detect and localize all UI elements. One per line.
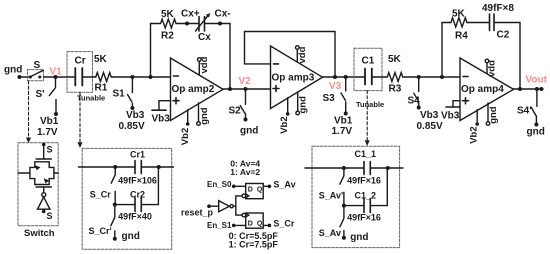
node feedback join	[228, 87, 232, 91]
wire U4 output to Vout	[514, 88, 544, 90]
switch S_Cr	[90, 167, 115, 205]
inverter U5	[219, 201, 234, 212]
resistor R2 5K	[159, 9, 179, 42]
node C1_2 left junction	[342, 204, 346, 208]
wire S to V1	[44, 76, 69, 78]
svg-text:C1: C1	[362, 56, 375, 67]
svg-text:gnd: gnd	[297, 96, 308, 114]
node gnd of Cr detail	[113, 231, 140, 242]
svg-text:Q: Q	[257, 186, 263, 193]
svg-text:S_Cr: S_Cr	[90, 190, 112, 200]
wire feedback rail to R2	[151, 23, 160, 25]
svg-text:5K: 5K	[452, 9, 466, 20]
svg-text:Op amp2: Op amp2	[172, 84, 215, 95]
svg-text:Vb3: Vb3	[420, 110, 439, 121]
node reset_p	[181, 204, 214, 217]
wire R2 to Cx	[179, 23, 199, 25]
bias Vb3 at U2 plus input	[152, 101, 171, 125]
switch S2	[229, 89, 248, 122]
svg-text:5K: 5K	[388, 54, 402, 65]
transistor NMOS gate of transmission gate	[36, 187, 51, 197]
svg-text:V3: V3	[329, 81, 342, 92]
C1 detail box	[312, 146, 400, 247]
wire U2 output to op-amp U3	[223, 88, 271, 90]
node S top control	[42, 143, 53, 155]
node En_S0	[207, 180, 236, 189]
wire R1 to op-amp U2 minus input	[113, 76, 171, 78]
svg-text:49fF×16: 49fF×16	[347, 176, 381, 186]
svg-text:Cx+: Cx+	[181, 9, 200, 20]
svg-text:R3: R3	[389, 84, 402, 95]
wire inverter to DFF2 clock	[236, 206, 242, 215]
wire reset_p to inverter	[209, 205, 219, 207]
svg-text:49fF×8: 49fF×8	[482, 3, 514, 14]
wire feedback up from main line	[150, 24, 152, 78]
svg-text:gnd: gnd	[350, 232, 368, 243]
svg-text:S: S	[47, 145, 53, 155]
node Vb3 0.85V under S4	[417, 110, 443, 132]
wire En_S0 to DFF1	[234, 185, 246, 187]
svg-text:Op amp3: Op amp3	[272, 73, 315, 84]
node Cr2 left junction	[113, 203, 117, 207]
switch S1	[113, 77, 135, 110]
svg-text:Cr1: Cr1	[130, 150, 145, 160]
svg-text:S': S'	[36, 89, 45, 100]
wire right terminal	[54, 172, 58, 174]
svg-text:Cr2: Cr2	[130, 190, 145, 200]
svg-text:vdd: vdd	[199, 56, 210, 73]
wire En_S1 to DFF2	[234, 224, 246, 226]
svg-text:Tunable: Tunable	[77, 94, 105, 103]
svg-text:gnd: gnd	[199, 107, 210, 125]
svg-text:Tunable: Tunable	[356, 100, 384, 109]
wire Cx to right corner	[205, 23, 231, 25]
svg-text:R2: R2	[161, 31, 174, 42]
svg-text:gnd: gnd	[122, 231, 140, 242]
node junction S4	[417, 75, 421, 79]
svg-text:C1_2: C1_2	[355, 191, 377, 201]
svg-text:S2: S2	[229, 106, 242, 117]
svg-text:Vb3: Vb3	[152, 114, 171, 125]
wire into U4	[442, 76, 460, 78]
svg-text:S1: S1	[113, 89, 126, 100]
svg-text:S_Av: S_Av	[273, 179, 295, 189]
capacitor C1_1 49fFx16	[347, 149, 381, 186]
pin vdd of U4	[485, 59, 497, 77]
switch S4'	[517, 89, 538, 127]
wire left terminal	[18, 172, 30, 174]
svg-text:gnd: gnd	[527, 127, 545, 138]
svg-text:C2: C2	[497, 30, 510, 41]
op-amp U2 Op amp2	[171, 58, 224, 121]
svg-text:S4': S4'	[517, 106, 532, 117]
svg-text:C1_1: C1_1	[355, 149, 377, 159]
svg-text:vdd: vdd	[487, 60, 498, 77]
node junction right Cr1	[157, 165, 161, 169]
wire R3 to op-amp U4 minus input	[406, 76, 442, 78]
svg-text:Vb3: Vb3	[126, 110, 145, 121]
svg-text:S_Av': S_Av'	[319, 191, 343, 201]
wire dashed C1 to C1 detail	[365, 91, 370, 146]
svg-text:En_S1: En_S1	[207, 221, 232, 230]
svg-text:gnd: gnd	[488, 106, 499, 124]
node junction feedback R4	[440, 75, 444, 79]
node junction feedback R2	[149, 75, 153, 79]
wire feedback down to op-amp U2 output	[229, 24, 231, 90]
switch S_Cr'	[89, 205, 115, 239]
svg-text:Vb2: Vb2	[180, 128, 191, 145]
wire inverter to clocks	[233, 196, 242, 206]
svg-text:vdd: vdd	[297, 46, 308, 63]
svg-text:S: S	[34, 60, 41, 71]
svg-text:Switch: Switch	[24, 228, 55, 239]
svg-text:49fF×16: 49fF×16	[347, 213, 381, 223]
resistor R3 5K	[386, 54, 406, 95]
svg-text:S: S	[47, 211, 53, 221]
svg-text:Op amp4: Op amp4	[461, 84, 504, 95]
node V3	[329, 75, 348, 92]
resistor R4 5K	[450, 9, 469, 42]
wire dashed S to Switch detail	[26, 81, 31, 143]
switch S	[27, 60, 43, 81]
pin vdd of U2	[198, 56, 210, 74]
pin Vb2 of U4	[469, 110, 480, 144]
svg-text:Vb1: Vb1	[334, 116, 353, 127]
Cr detail box	[82, 148, 172, 249]
label logic settings Av	[230, 159, 260, 177]
flip-flop DFF2	[242, 213, 263, 228]
inverter of switch control	[38, 197, 53, 221]
node feedback join U3	[333, 75, 337, 79]
svg-text:S3: S3	[323, 93, 336, 104]
svg-text:5K: 5K	[161, 9, 175, 20]
svg-text:reset_p: reset_p	[181, 208, 214, 218]
node V1	[50, 67, 63, 80]
capacitor Cr1 49fFx106	[118, 150, 157, 186]
node Cx-	[215, 9, 231, 26]
node S_Cr output	[268, 219, 295, 229]
svg-text:V1: V1	[50, 67, 63, 78]
wire U3 feedback loop	[245, 32, 336, 78]
switch S' from V1 down	[36, 77, 59, 116]
svg-text:Q: Q	[257, 221, 263, 228]
svg-text:Vb1: Vb1	[40, 116, 59, 127]
svg-text:Vb2: Vb2	[469, 126, 480, 143]
op-amp U4 Op amp4	[460, 58, 514, 121]
svg-text:Vb3: Vb3	[441, 111, 460, 122]
resistor R1 5K	[94, 54, 113, 94]
Switch detail box (transmission gate)	[18, 143, 58, 226]
wire DFF1 Q to S_Av	[263, 185, 269, 187]
svg-text:Cx-: Cx-	[215, 9, 231, 20]
node Vb3 0.85V under S1	[119, 110, 145, 132]
switch S_Av'	[319, 168, 344, 206]
capacitor Cr (tunable, dashed box)	[67, 52, 105, 103]
wire U3 output	[323, 76, 366, 78]
svg-text:En_S0: En_S0	[207, 180, 232, 189]
svg-text:Vb2: Vb2	[279, 116, 290, 133]
wire DFF2 Q to S_Cr	[263, 224, 269, 226]
svg-text:1.7V: 1.7V	[332, 126, 353, 137]
svg-text:0.85V: 0.85V	[417, 121, 443, 132]
pin gnd of U2	[197, 103, 210, 125]
svg-text:1: Av=2: 1: Av=2	[230, 167, 260, 177]
svg-text:S_Av: S_Av	[319, 228, 341, 238]
node S_Av output	[268, 179, 296, 189]
node S4' junction	[535, 87, 539, 91]
node gnd of C1 detail	[342, 232, 369, 243]
svg-text:5K: 5K	[94, 54, 108, 65]
node junction left C1_1	[342, 166, 346, 170]
capacitor C2 49fF x8	[482, 3, 514, 41]
wire R4 to C2	[468, 22, 489, 24]
wire C2 down to U4 output	[494, 23, 520, 90]
capacitor C1_2 49fFx16	[344, 168, 387, 223]
pin gnd of U4	[486, 103, 499, 125]
wire dashed Cr to Cr detail	[78, 92, 83, 148]
svg-text:R1: R1	[95, 83, 108, 94]
pin Vb2 of U2	[180, 110, 191, 146]
svg-text:V2: V2	[239, 76, 252, 87]
node junction left Cr1	[113, 165, 117, 169]
svg-text:49fF×40: 49fF×40	[118, 212, 152, 222]
svg-text:Cr: Cr	[75, 56, 86, 67]
svg-text:S4: S4	[408, 96, 421, 107]
pin vdd of U3	[296, 46, 309, 64]
switch S3	[323, 77, 348, 116]
node Vb1 1.7V under S'	[37, 116, 59, 138]
transistor PMOS of transmission gate	[36, 145, 51, 160]
capacitor Cr2 49fFx40	[115, 167, 159, 222]
svg-text:0.85V: 0.85V	[119, 121, 145, 132]
wire feedback up to R4	[442, 23, 450, 78]
label logic settings Cr	[229, 231, 279, 249]
wire Cr detail main rail	[79, 166, 174, 168]
svg-text:S_Cr': S_Cr'	[89, 226, 112, 236]
svg-text:Vout: Vout	[526, 75, 548, 86]
flip-flop DFF1	[242, 184, 263, 199]
svg-text:D: D	[248, 186, 253, 193]
svg-text:R4: R4	[455, 31, 468, 42]
node junction S1	[130, 75, 134, 79]
capacitor Cx (variable)	[196, 13, 212, 43]
pin gnd of U3	[296, 92, 308, 115]
svg-text:gnd: gnd	[240, 126, 258, 137]
node junction right C1_1	[386, 166, 390, 170]
wire gnd to switch S	[19, 76, 29, 78]
svg-text:Cx: Cx	[198, 32, 211, 43]
node Cx+	[181, 9, 200, 26]
bias Vb3 at U4 plus input	[441, 101, 460, 122]
op-amp U3 Op amp3	[271, 46, 323, 109]
node gnd input terminal	[4, 65, 22, 80]
svg-text:1.7V: 1.7V	[37, 127, 58, 138]
svg-text:S_Cr: S_Cr	[273, 219, 295, 229]
svg-text:D: D	[248, 221, 253, 228]
node Vout terminal	[526, 75, 548, 92]
node feedback join U4	[518, 87, 522, 91]
svg-text:1: Cr=7.5pF: 1: Cr=7.5pF	[229, 239, 279, 249]
wire C1 detail main rail	[305, 167, 403, 169]
pin Vb2 of U3	[279, 98, 290, 134]
switch S_Av	[319, 206, 344, 238]
capacitor C1 (tunable, dashed box)	[354, 48, 386, 109]
transmission gate channel	[30, 162, 54, 185]
svg-text:49fF×106: 49fF×106	[118, 175, 157, 185]
node En_S1	[207, 221, 236, 230]
node V2	[239, 76, 252, 91]
node Vb1 1.7V under S3	[332, 116, 353, 138]
switch S4	[408, 77, 421, 110]
svg-text:gnd: gnd	[4, 65, 22, 76]
